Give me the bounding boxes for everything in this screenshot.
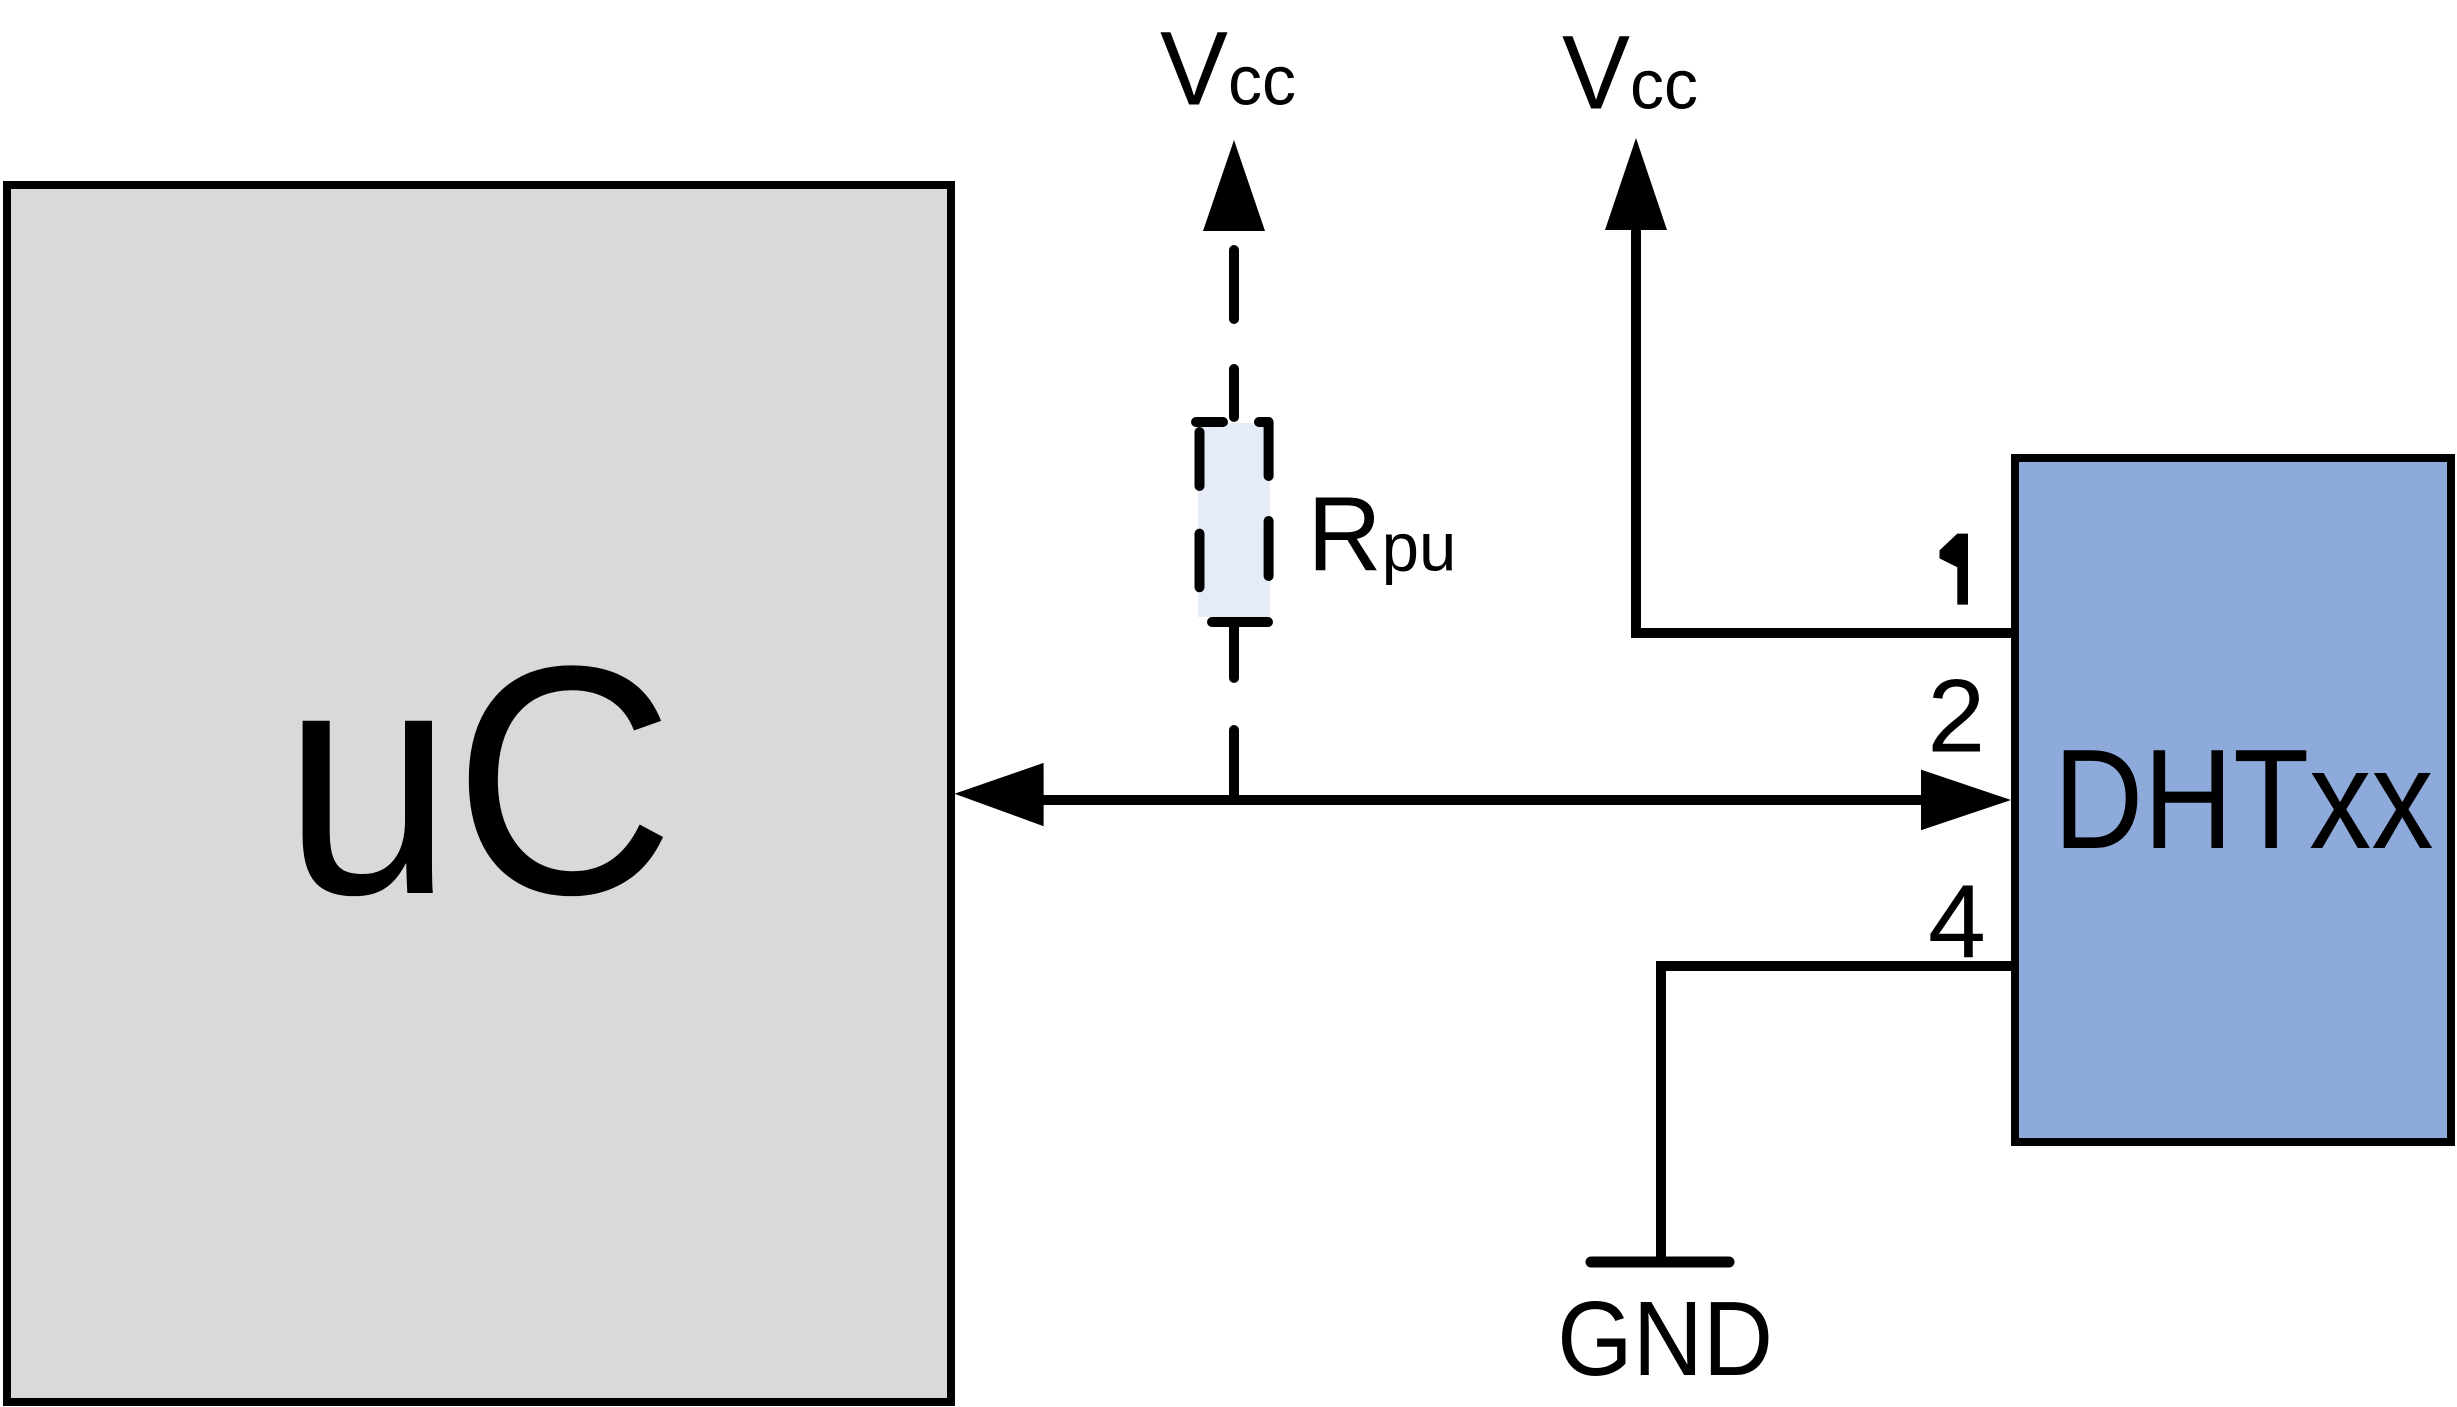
svg-text:Vcc: Vcc bbox=[1562, 15, 1698, 132]
svg-text:GND: GND bbox=[1557, 1280, 1773, 1398]
svg-text:2: 2 bbox=[1927, 658, 1985, 774]
microcontroller uC box bbox=[7, 185, 951, 1402]
data wire uC to DHTxx pin 2 (bidirectional) bbox=[1040, 795, 1925, 805]
svg-text:DHTxx: DHTxx bbox=[2054, 720, 2434, 879]
ground bar bbox=[1591, 1257, 1729, 1268]
arrowhead into DHTxx pin 2 bbox=[1921, 770, 2011, 831]
svg-text:Rpu: Rpu bbox=[1307, 476, 1456, 594]
DHTxx sensor box U1 bbox=[2015, 458, 2451, 1142]
dashed wire Vcc to resistor Rpu bbox=[1229, 250, 1239, 319]
wire pin 4 to ground bbox=[1661, 966, 2015, 1262]
dashed wire resistor Rpu to data wire bbox=[1229, 622, 1239, 678]
wire Vcc to pin 1 bbox=[1636, 230, 2015, 633]
arrowhead into uC bbox=[955, 763, 1044, 826]
svg-text:Vcc: Vcc bbox=[1160, 11, 1296, 128]
svg-text:uC: uC bbox=[283, 599, 675, 963]
pin 1 label bbox=[1940, 534, 1969, 605]
Vcc arrow (right) bbox=[1605, 138, 1667, 230]
resistor Rpu body bbox=[1198, 423, 1270, 617]
resistor Rpu dashed outline bbox=[1196, 417, 1223, 427]
Vcc arrow (left) bbox=[1203, 140, 1265, 231]
